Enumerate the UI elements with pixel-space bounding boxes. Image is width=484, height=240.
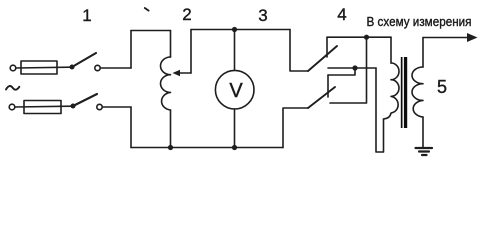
- wire: riser up: [130, 31, 132, 69]
- output arrowhead: [467, 33, 478, 42]
- svg-text:2: 2: [182, 5, 191, 24]
- switch S1a contact terminal: [95, 65, 100, 70]
- secondary top lead: [422, 38, 424, 68]
- ground symbol: [416, 147, 433, 149]
- switch S1a blade: [72, 53, 96, 67]
- wire through fuse F2: [15, 105, 71, 108]
- switch S4a contact stub: [326, 37, 328, 57]
- tap arrowhead: [173, 70, 181, 76]
- autotransformer T1 (2) top lead: [170, 31, 172, 58]
- switch S1b pivot: [71, 104, 76, 109]
- fuse F1: [21, 61, 57, 74]
- secondary bottom lead: [422, 117, 424, 148]
- tap wire of T1: [179, 72, 191, 74]
- terminal X2 (bottom input): [9, 104, 15, 110]
- junction: coil to bottom rail: [168, 145, 173, 150]
- transformer T2 secondary winding: [412, 67, 423, 117]
- switch S1b contact terminal: [97, 104, 102, 109]
- wire: riser down to bottom rail: [130, 107, 132, 148]
- junction on top wire: [364, 35, 369, 40]
- output wire with arrow: [423, 37, 468, 39]
- svg-text:4: 4: [337, 5, 346, 24]
- wire: S4b contact link: [328, 68, 355, 75]
- junction: voltmeter top: [232, 27, 237, 32]
- tap riser: [190, 30, 192, 74]
- switch S4b blade: [308, 87, 335, 108]
- voltmeter top lead: [234, 30, 236, 71]
- wire: S4a contact to transformer primary top: [327, 36, 391, 38]
- svg-text:V: V: [229, 80, 243, 102]
- AC source symbol ~: [6, 86, 19, 90]
- top wire: tap to switch 4: [191, 29, 290, 31]
- bottom rail riser to switch 4 lower pole: [283, 108, 308, 148]
- switch S1b blade: [73, 94, 97, 106]
- svg-text:3: 3: [258, 6, 267, 25]
- transformer T2 primary winding: [384, 63, 400, 119]
- autotransformer T1 winding: [161, 57, 171, 110]
- voltmeter V (3) body: [215, 70, 254, 109]
- terminal X1 (top input): [10, 65, 16, 71]
- wire: from top junction down: [330, 37, 367, 103]
- wire: y68 drop to primary bottom: [376, 68, 384, 152]
- stray tick mark: [145, 8, 149, 11]
- switch S4b contact stub: [327, 75, 329, 97]
- bottom rail: [131, 147, 283, 149]
- voltmeter bottom lead: [234, 109, 236, 148]
- switch S1a pivot: [70, 65, 75, 70]
- svg-text:5: 5: [437, 77, 447, 97]
- wire: cross link at y68: [328, 67, 376, 69]
- fuse F2: [24, 101, 61, 114]
- junction: voltmeter bottom: [232, 145, 237, 150]
- svg-text:В схему измерения: В схему измерения: [367, 14, 472, 29]
- wire through fuse F1: [16, 66, 70, 69]
- wire: S1a to riser: [100, 67, 131, 69]
- primary top lead corner: [390, 37, 392, 63]
- junction at y68: [352, 65, 357, 70]
- autotransformer T1 bottom lead: [170, 110, 172, 148]
- wire: S1b to riser: [102, 106, 131, 108]
- switch S4a feed: [290, 30, 308, 72]
- transformer core: [401, 57, 403, 128]
- wire: top to coil 2: [131, 30, 171, 32]
- svg-text:1: 1: [82, 6, 91, 25]
- switch S4a blade: [308, 46, 337, 71]
